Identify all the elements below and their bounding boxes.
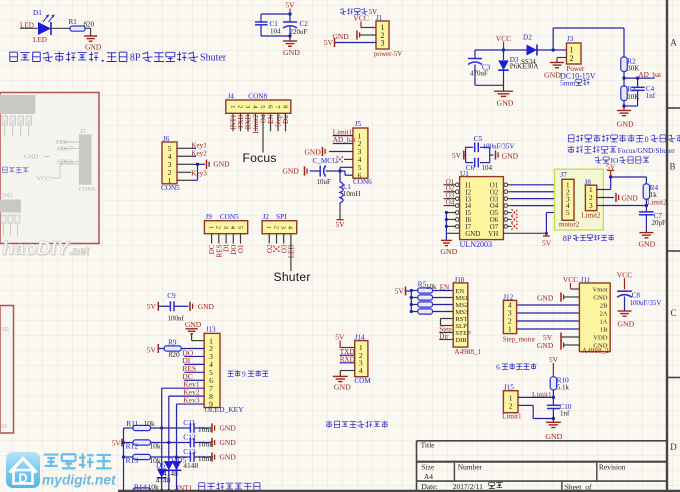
svg-text:820: 820	[84, 21, 95, 29]
svg-text:1: 1	[508, 325, 512, 334]
svg-text:GND: GND	[638, 240, 655, 249]
svg-text:power-5V: power-5V	[374, 50, 402, 58]
svg-text:3: 3	[244, 105, 251, 108]
svg-text:6: 6	[496, 362, 500, 371]
svg-text:RXD: RXD	[340, 355, 355, 363]
svg-text:GND: GND	[593, 295, 608, 302]
svg-text:220uF: 220uF	[290, 28, 308, 36]
svg-text:J13: J13	[206, 326, 216, 334]
svg-text:ADC6: ADC6	[56, 159, 74, 166]
svg-text:Key3: Key3	[183, 395, 199, 404]
svg-text:2017/2/11: 2017/2/11	[453, 482, 483, 491]
svg-text:10k: 10k	[149, 442, 161, 451]
svg-text:10nF: 10nF	[198, 454, 213, 463]
svg-text:470uF: 470uF	[470, 70, 488, 78]
svg-text:GND: GND	[185, 320, 202, 329]
svg-text:STEP: STEP	[455, 330, 471, 337]
svg-text:100uF/35V: 100uF/35V	[483, 142, 515, 150]
svg-text:R13: R13	[126, 456, 139, 465]
svg-text:R12: R12	[126, 442, 139, 451]
svg-text:2: 2	[272, 226, 279, 229]
svg-text:Vmot: Vmot	[592, 287, 607, 294]
svg-text:J5: J5	[355, 120, 362, 128]
svg-text:CON6: CON6	[79, 186, 97, 193]
svg-text:J7: J7	[560, 171, 567, 179]
svg-text:B5: B5	[0, 424, 7, 430]
svg-text:MS2: MS2	[455, 302, 468, 309]
svg-text:GND: GND	[198, 302, 215, 311]
svg-text:D: D	[18, 471, 27, 485]
svg-text:10nf: 10nf	[198, 425, 212, 434]
svg-text:GND: GND	[537, 341, 554, 350]
svg-text:1k: 1k	[650, 191, 658, 199]
svg-text:GND: GND	[544, 70, 561, 79]
svg-text:VCC: VCC	[563, 275, 578, 284]
svg-text:1: 1	[265, 226, 272, 229]
svg-text:OLED_KEY: OLED_KEY	[205, 405, 245, 414]
svg-text:COM: COM	[354, 377, 371, 385]
svg-text:R11: R11	[126, 419, 138, 428]
svg-text:GND: GND	[617, 320, 634, 329]
svg-text:ON5: ON5	[0, 193, 13, 200]
svg-text:J9: J9	[205, 213, 212, 221]
svg-text:GND: GND	[220, 453, 237, 462]
svg-text:5V: 5V	[335, 220, 345, 229]
svg-text:Title: Title	[421, 441, 436, 450]
svg-text:GND: GND	[85, 43, 102, 52]
svg-text:VCC: VCC	[617, 270, 632, 279]
svg-text:GND: GND	[334, 383, 351, 392]
svg-text:GND: GND	[305, 147, 322, 156]
svg-text:J3: J3	[567, 35, 574, 43]
svg-text:C8: C8	[632, 291, 641, 299]
svg-text:Number: Number	[458, 462, 483, 471]
svg-text:820: 820	[169, 350, 181, 359]
svg-text:VH: VH	[488, 231, 498, 238]
svg-text:5: 5	[236, 226, 243, 229]
svg-text:GND: GND	[24, 154, 38, 161]
svg-text:GND: GND	[497, 99, 514, 108]
svg-text:AD_bat: AD_bat	[333, 136, 356, 144]
svg-text:C5: C5	[474, 135, 483, 143]
svg-text:J5: J5	[80, 129, 85, 135]
svg-text:104: 104	[482, 164, 493, 172]
svg-text:O1: O1	[237, 244, 245, 253]
svg-text:A4988_2: A4988_2	[582, 347, 609, 355]
svg-text:A4: A4	[424, 472, 433, 481]
svg-text:5: 5	[566, 208, 570, 217]
svg-text:5V: 5V	[335, 333, 345, 342]
svg-text:1: 1	[207, 226, 214, 229]
svg-text:D2: D2	[523, 34, 532, 42]
svg-text:10k: 10k	[144, 419, 156, 428]
svg-text:4: 4	[359, 366, 363, 375]
svg-text:C12: C12	[183, 433, 196, 442]
svg-text:CON5: CON5	[220, 213, 239, 221]
svg-text:ULN2003: ULN2003	[460, 240, 492, 249]
svg-text:C_MCU: C_MCU	[313, 157, 339, 165]
svg-text:9: 9	[242, 370, 246, 379]
svg-text:B: B	[669, 162, 675, 172]
svg-text:0: 0	[645, 135, 649, 144]
svg-text:Limit1: Limit1	[502, 412, 522, 420]
svg-text:R1: R1	[69, 18, 78, 26]
svg-text:CON5: CON5	[161, 184, 180, 192]
svg-text:Dir: Dir	[282, 114, 290, 124]
svg-text:2: 2	[236, 105, 243, 108]
svg-text:2: 2	[509, 401, 513, 410]
svg-text:ADC7: ADC7	[56, 145, 74, 152]
svg-text:5V: 5V	[324, 38, 334, 47]
svg-text:5V: 5V	[452, 151, 462, 160]
svg-text:1B: 1B	[600, 327, 608, 334]
svg-text:MS1: MS1	[455, 295, 468, 302]
svg-text:D1: D1	[33, 9, 42, 17]
svg-text:5mm: 5mm	[560, 79, 576, 88]
svg-text:C2: C2	[300, 20, 309, 28]
svg-text:GND: GND	[622, 194, 639, 203]
svg-text:1nf: 1nf	[560, 409, 570, 417]
svg-text:2: 2	[215, 226, 222, 229]
svg-text:RST: RST	[455, 316, 467, 323]
svg-text:Size: Size	[421, 462, 435, 471]
svg-text:100nf: 100nf	[168, 314, 185, 322]
svg-text:AD_bat: AD_bat	[638, 71, 661, 79]
svg-text:MS3: MS3	[455, 309, 469, 316]
svg-text:VCC: VCC	[353, 14, 368, 23]
svg-text:5V: 5V	[549, 355, 559, 364]
svg-text:10k: 10k	[426, 283, 437, 291]
svg-text:EN: EN	[440, 284, 449, 292]
svg-text:5V: 5V	[112, 438, 122, 447]
svg-text:5V: 5V	[147, 302, 157, 311]
svg-text:GND: GND	[537, 293, 554, 302]
svg-text:Sheet: Sheet	[565, 483, 583, 492]
svg-text:Limit2: Limit2	[647, 199, 667, 207]
svg-text:GND: GND	[283, 167, 300, 176]
svg-text:Revision: Revision	[599, 462, 626, 471]
svg-text:VDD: VDD	[593, 335, 608, 342]
svg-text:Shuter: Shuter	[274, 270, 311, 284]
svg-text:GND: GND	[213, 159, 230, 168]
svg-text:GND: GND	[502, 151, 519, 160]
svg-text:of: of	[585, 483, 592, 492]
svg-text:8P: 8P	[563, 233, 572, 243]
svg-text:CON6: CON6	[353, 178, 372, 186]
svg-text:GND: GND	[220, 424, 237, 433]
svg-text:10nF: 10nF	[198, 439, 213, 448]
svg-text:3: 3	[222, 226, 229, 229]
svg-text:SLP: SLP	[455, 323, 467, 330]
svg-text:5V: 5V	[395, 286, 405, 295]
svg-text:1A: 1A	[599, 319, 607, 326]
svg-text:5V: 5V	[147, 345, 157, 354]
svg-text:SPI: SPI	[276, 213, 287, 221]
svg-text:8P: 8P	[130, 52, 141, 63]
svg-text:3: 3	[280, 226, 287, 229]
svg-text:Focus: Focus	[243, 151, 277, 165]
svg-text:2: 2	[570, 54, 574, 63]
svg-text:3: 3	[589, 201, 593, 210]
svg-text:GND: GND	[465, 231, 480, 238]
svg-text:3: 3	[381, 38, 385, 47]
svg-text:5: 5	[259, 105, 266, 108]
svg-text:EN: EN	[455, 288, 464, 295]
svg-text:8: 8	[281, 105, 288, 108]
svg-text:O2: O2	[266, 244, 274, 253]
svg-text:1: 1	[229, 105, 236, 108]
svg-text:100uF/35V: 100uF/35V	[630, 299, 662, 307]
svg-text:4148: 4148	[183, 461, 198, 470]
svg-text:DIR: DIR	[455, 337, 467, 344]
svg-text:2B: 2B	[600, 303, 608, 310]
svg-text:C11: C11	[183, 418, 195, 427]
svg-text:C9: C9	[167, 292, 176, 300]
svg-text:LED: LED	[33, 36, 47, 44]
svg-text:10mH: 10mH	[343, 190, 361, 198]
svg-text:A: A	[670, 38, 677, 48]
svg-text:A4988_1: A4988_1	[454, 348, 481, 356]
svg-text:Shuter: Shuter	[200, 52, 227, 63]
svg-text:VCC: VCC	[37, 176, 50, 183]
svg-text:VCC: VCC	[496, 34, 511, 43]
svg-text:GND: GND	[617, 120, 634, 129]
svg-text:Date:: Date:	[421, 482, 437, 491]
svg-text:Key3: Key3	[191, 169, 207, 177]
svg-text:Step_motor: Step_motor	[503, 335, 536, 343]
svg-text:5V: 5V	[542, 239, 552, 248]
svg-text:GND: GND	[545, 432, 562, 441]
svg-text:GND: GND	[440, 247, 457, 256]
svg-text:GND: GND	[283, 48, 300, 57]
svg-text:C: C	[670, 308, 676, 318]
svg-text:mydigit.net: mydigit.net	[42, 473, 117, 488]
svg-text:P6KE30A: P6KE30A	[510, 63, 539, 71]
svg-text:GND: GND	[220, 438, 237, 447]
svg-text:20pF: 20pF	[652, 219, 667, 227]
svg-text:motor2: motor2	[559, 221, 580, 229]
svg-text:10uF: 10uF	[317, 178, 332, 186]
svg-text:104: 104	[270, 28, 281, 36]
svg-text:ND: ND	[0, 327, 9, 333]
svg-text:5V: 5V	[285, 1, 295, 10]
svg-text:Limit2: Limit2	[582, 212, 602, 220]
svg-text:5.1k: 5.1k	[557, 384, 570, 392]
svg-text:J2: J2	[263, 213, 270, 221]
svg-text:2A: 2A	[599, 311, 607, 318]
svg-text:D: D	[670, 442, 677, 452]
svg-text:1nf: 1nf	[646, 92, 656, 100]
